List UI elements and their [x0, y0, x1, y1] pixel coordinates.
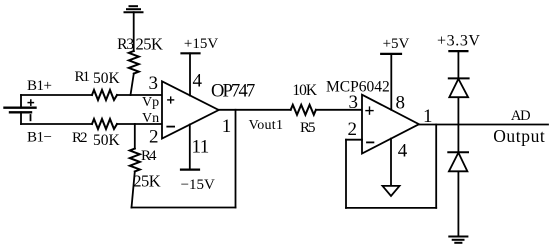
svg-text:B1+: B1+	[27, 78, 52, 94]
svg-text:4: 4	[398, 140, 408, 161]
svg-text:+15V: +15V	[184, 36, 218, 52]
svg-text:3: 3	[149, 73, 159, 94]
svg-text:−15V: −15V	[181, 177, 215, 193]
svg-text:25K: 25K	[133, 172, 161, 191]
svg-text:8: 8	[396, 93, 406, 114]
svg-text:AD: AD	[511, 108, 530, 124]
svg-text:2: 2	[149, 127, 159, 148]
svg-text:OP747: OP747	[211, 82, 255, 102]
svg-text:3: 3	[349, 92, 359, 113]
svg-text:10K: 10K	[292, 82, 318, 99]
svg-text:1: 1	[222, 116, 232, 137]
svg-text:4: 4	[193, 71, 203, 92]
svg-text:R3: R3	[117, 36, 134, 53]
svg-text:R2: R2	[72, 130, 87, 146]
svg-text:R1: R1	[75, 69, 90, 85]
svg-text:Vp: Vp	[142, 95, 159, 110]
svg-text:Vout1: Vout1	[249, 118, 284, 133]
svg-text:50K: 50K	[93, 70, 121, 87]
svg-text:2: 2	[348, 119, 358, 140]
svg-text:25K: 25K	[136, 35, 164, 54]
svg-text:Output: Output	[493, 126, 545, 146]
svg-text:+5V: +5V	[383, 36, 410, 52]
svg-text:B1−: B1−	[27, 130, 52, 146]
svg-text:R4: R4	[141, 148, 157, 164]
svg-text:Vn: Vn	[142, 111, 159, 126]
svg-text:1: 1	[423, 106, 433, 127]
svg-text:50K: 50K	[93, 132, 121, 149]
svg-text:11: 11	[192, 137, 209, 158]
svg-text:+3.3V: +3.3V	[437, 32, 481, 49]
svg-text:R5: R5	[300, 120, 315, 136]
